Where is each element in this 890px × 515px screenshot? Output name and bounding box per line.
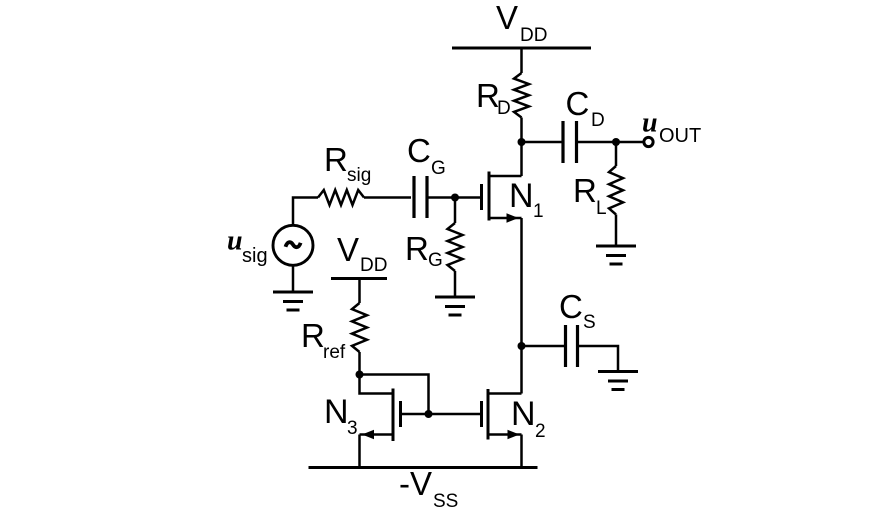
svg-text:G: G <box>431 158 446 179</box>
node output (junction dot) <box>612 138 620 146</box>
wire source node down to N2 drain <box>520 346 523 394</box>
transistor N1 <box>482 172 544 223</box>
svg-text:R: R <box>573 172 597 209</box>
wire output node down to RL <box>615 142 618 166</box>
wire RSIG source loop: vsig top <box>293 198 318 225</box>
resistor Rref <box>301 303 367 363</box>
output terminal vOUT (open circle) <box>642 108 701 148</box>
wire CG to gate node <box>429 196 482 199</box>
svg-text:DD: DD <box>360 255 387 276</box>
wire CD to output node <box>578 141 644 144</box>
wire N2 source to -VSS rail <box>520 435 523 468</box>
resistor RL <box>573 166 623 219</box>
svg-text:DD: DD <box>520 25 547 46</box>
svg-text:V: V <box>337 231 359 268</box>
wire N3 source to -VSS rail <box>358 435 361 468</box>
svg-text:D: D <box>591 110 605 131</box>
capacitor CS <box>559 288 596 367</box>
wire RD bottom to N1 drain <box>520 118 523 177</box>
ground (under RL) <box>596 246 636 264</box>
svg-text:N: N <box>509 177 534 215</box>
svg-text:OUT: OUT <box>659 125 701 147</box>
resistor RG <box>405 223 463 271</box>
transistor N2 <box>482 389 546 442</box>
ground (under RG) <box>435 297 475 315</box>
svg-text:sig: sig <box>242 245 268 267</box>
wire CS to ground <box>579 346 618 372</box>
wire Rsig to CG <box>364 196 411 199</box>
resistor Rsig <box>318 141 371 205</box>
svg-text:N: N <box>511 395 536 433</box>
source vsig (AC source) <box>227 225 313 267</box>
wire mirror node to gates <box>360 375 429 415</box>
transistor N3 <box>324 389 401 442</box>
svg-text:D: D <box>497 98 511 119</box>
wire VDD rail to Rref <box>358 279 361 304</box>
wire vsig to ground <box>292 267 295 293</box>
svg-text:ref: ref <box>323 342 346 363</box>
node N1 source / CS (junction dot) <box>518 342 526 350</box>
svg-text:C: C <box>407 132 431 169</box>
svg-text:G: G <box>428 250 443 271</box>
svg-text:SS: SS <box>433 491 458 512</box>
svg-text:3: 3 <box>347 418 358 439</box>
svg-text:sig: sig <box>347 165 371 186</box>
wire RL bottom to ground <box>615 215 618 247</box>
node N1 gate (junction dot) <box>451 194 459 202</box>
node drain of N1 (junction dot) <box>518 138 526 146</box>
svg-text:2: 2 <box>535 421 546 442</box>
node Rref / N3 drain (junction dot) <box>356 371 364 379</box>
wire gate bus N3 to N2 <box>401 413 481 416</box>
wire RG to ground <box>454 271 457 297</box>
power rail VDD (middle) <box>331 231 387 279</box>
wire N1 source down to source node <box>520 218 523 346</box>
svg-text:C: C <box>566 85 590 122</box>
wire Rref to mirror node <box>358 352 361 375</box>
svg-text:S: S <box>583 312 596 333</box>
capacitor CD <box>563 85 605 163</box>
svg-text:R: R <box>324 141 348 178</box>
wire gate node down to RG <box>454 198 457 224</box>
wire mirror node down to N3 drain <box>360 375 394 394</box>
capacitor CG <box>407 132 446 218</box>
svg-text:-V: -V <box>399 465 432 502</box>
power rail -VSS (bottom) <box>309 465 538 512</box>
svg-text:u: u <box>227 226 243 257</box>
svg-text:1: 1 <box>533 201 544 222</box>
ground (under vsig) <box>273 292 313 310</box>
power rail VDD (top) <box>452 0 591 48</box>
wire drain node to CD <box>522 141 562 144</box>
svg-text:R: R <box>405 230 429 267</box>
svg-text:V: V <box>496 0 518 36</box>
svg-text:N: N <box>324 393 349 431</box>
node gate bus (junction dot) <box>425 410 433 418</box>
wire VDD rail to RD top <box>520 48 523 73</box>
svg-text:R: R <box>301 317 325 354</box>
svg-text:u: u <box>642 108 658 139</box>
resistor RD <box>476 73 529 119</box>
ground (under CS) <box>598 372 638 390</box>
svg-text:L: L <box>596 198 607 219</box>
wire source node to CS <box>522 345 565 348</box>
svg-text:C: C <box>559 288 583 325</box>
